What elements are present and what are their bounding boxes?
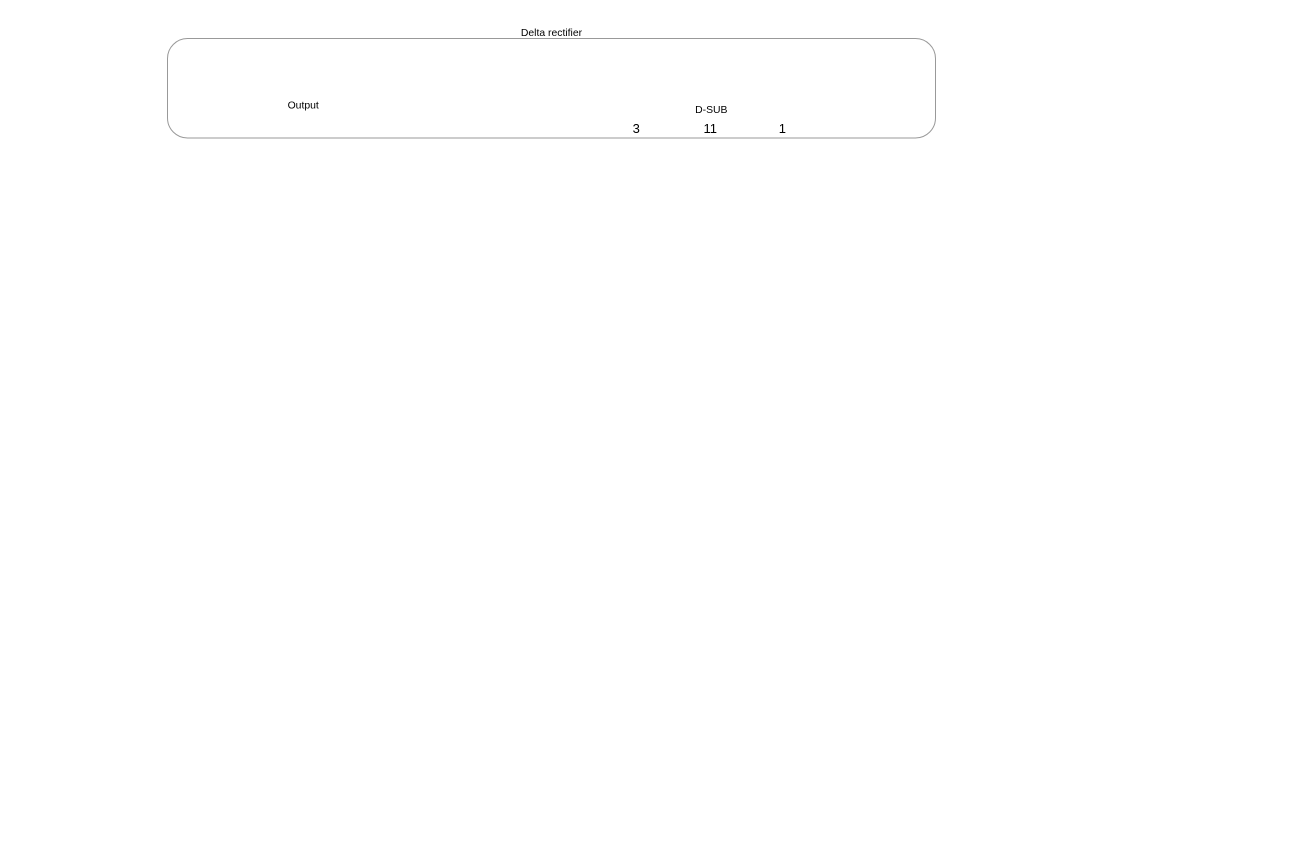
svg-text:Delta rectifier: Delta rectifier xyxy=(521,28,583,39)
svg-text:11: 11 xyxy=(703,121,717,136)
rectifier box U1 Delta rectifier xyxy=(168,28,936,138)
svg-text:Output: Output xyxy=(288,100,319,111)
svg-text:D-SUB: D-SUB xyxy=(695,105,727,116)
svg-text:3: 3 xyxy=(633,121,640,136)
svg-text:1: 1 xyxy=(779,121,786,136)
